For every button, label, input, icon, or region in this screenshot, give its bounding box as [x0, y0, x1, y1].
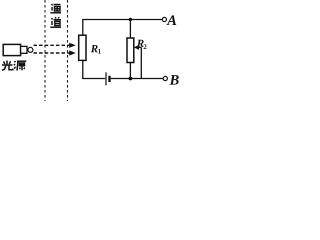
label B	[169, 75, 178, 85]
label 光源 (light source), hand-drawn glyph 源	[14, 61, 26, 71]
channel boundary dashed line right	[67, 0, 69, 101]
label A	[166, 15, 176, 25]
node junction dot top (R2 tap on top wire)	[129, 18, 132, 21]
light beam arrow lower	[34, 50, 76, 55]
wire R2 wiper down to bottom wire	[140, 47, 142, 78]
battery long plate	[105, 72, 107, 85]
photoresistor R1	[79, 35, 86, 60]
wire R1 top lead and top wire to terminal A	[83, 20, 162, 36]
light source lamp lens circle	[28, 47, 33, 52]
label R1	[91, 45, 98, 52]
light source lamp body	[3, 44, 20, 55]
wire R1 bottom lead to battery	[83, 60, 105, 78]
potentiometer R2 body	[127, 38, 134, 63]
wire battery to bottom junction and terminal B	[111, 78, 163, 80]
channel boundary dashed line left	[44, 0, 46, 101]
light beam arrow upper	[34, 43, 76, 48]
node junction dot bottom	[129, 77, 133, 81]
label 通道 (channel), hand-drawn glyph 通	[50, 4, 61, 13]
wire R2 top lead	[129, 20, 131, 39]
wire R2 bottom lead	[129, 63, 131, 79]
potentiometer R2 wiper arrow	[134, 45, 141, 50]
terminal A circle	[162, 17, 166, 21]
label R2	[137, 40, 144, 47]
label 光源 (light source), hand-drawn glyph 光	[2, 61, 13, 71]
label 通道 (channel), hand-drawn glyph 道	[50, 17, 61, 27]
battery short thick plate	[108, 76, 110, 82]
terminal B circle	[163, 76, 167, 80]
light source lamp nose	[21, 46, 27, 53]
